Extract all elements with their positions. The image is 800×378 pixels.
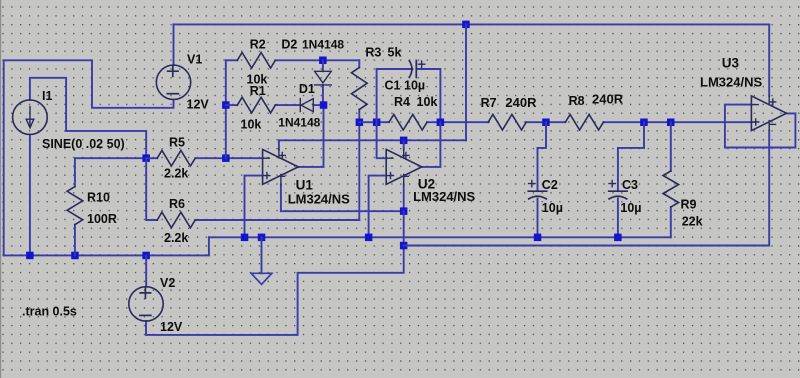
U2 V+ pin stub (403, 149, 405, 158)
svg-text:R5: R5 (169, 136, 185, 150)
svg-text:C2: C2 (542, 178, 558, 192)
voltage source V1 (156, 65, 190, 99)
wire: U1 V- lead / V- row (281, 184, 404, 211)
wire: R10 bottom lead (74, 225, 76, 256)
capacitor C2 (528, 191, 546, 199)
svg-text:R8: R8 (569, 94, 585, 108)
svg-text:R9: R9 (681, 198, 697, 212)
node R5/riser junction (222, 154, 230, 162)
wire: U1 V+ stub (278, 140, 280, 149)
svg-text:12V: 12V (187, 98, 210, 112)
svg-text:R10: R10 (87, 191, 110, 205)
C3 plus mark (609, 180, 615, 186)
node ground stem junction (258, 234, 266, 242)
wire: opamp V+ rail (279, 139, 466, 141)
node D2 top junction (319, 57, 327, 65)
wire: C2 bottom lead (537, 199, 539, 238)
node C3 top junction (640, 119, 648, 127)
svg-text:C1: C1 (385, 79, 401, 93)
svg-text:100R: 100R (87, 212, 117, 226)
wire: U3 V+ riser (768, 24, 770, 96)
wire: V1 negative chain (4, 60, 174, 255)
node D1-D2 junction (320, 101, 328, 109)
node bus-V2 junction (142, 252, 150, 260)
diode D1 (300, 99, 313, 112)
wire: R1R2 riser (225, 60, 227, 158)
C2 plus mark (529, 180, 535, 186)
wire: R6 to summing riser (358, 122, 360, 220)
V2 plus mark (140, 288, 150, 298)
U3 V- pin stub (768, 121, 770, 131)
V2 minus mark (140, 314, 151, 316)
I1 arrow (26, 107, 34, 128)
wire: ground rail (209, 236, 671, 238)
svg-text:C3: C3 (622, 178, 638, 192)
node R1 left junction (222, 101, 230, 109)
voltage source V2 (129, 287, 163, 321)
svg-text:10k: 10k (241, 118, 262, 132)
wire: ground stem (261, 237, 263, 273)
svg-text:R6: R6 (169, 197, 185, 211)
node U1 +in/ground junction (241, 234, 249, 242)
svg-text:1N4148: 1N4148 (278, 116, 320, 130)
svg-text:D2: D2 (281, 38, 297, 52)
svg-text:2.2k: 2.2k (164, 231, 188, 245)
wire: R9 top lead (670, 122, 672, 171)
U1 V- mark (279, 175, 285, 177)
wire: D1 anode lead (313, 104, 323, 106)
wire: C3 top lead (618, 122, 644, 191)
capacitor C1 (409, 61, 416, 78)
svg-text:.tran 0.5s: .tran 0.5s (22, 305, 77, 319)
capacitor C3 (609, 191, 627, 199)
node U2 out junction (437, 119, 445, 127)
U1 +in mark (264, 173, 270, 179)
svg-text:22k: 22k (682, 215, 703, 229)
op-amp U1 (263, 149, 299, 184)
wire: R8 to U3 +in (603, 121, 751, 123)
wire: I1 bottom lead (29, 135, 31, 256)
node U2 V+ junction (400, 137, 408, 145)
U3 +in mark (753, 119, 759, 125)
node U2 V- junction (400, 207, 408, 215)
wire: R1 left lead (226, 104, 238, 106)
svg-text:5k: 5k (388, 46, 402, 60)
U1 V+ pin stub (278, 149, 280, 158)
svg-text:I1: I1 (42, 89, 52, 103)
svg-text:R7: R7 (481, 96, 497, 110)
wire: R1 to D1 cathode (275, 104, 300, 106)
U1 V- pin stub (280, 174, 282, 184)
V1 plus mark (168, 66, 178, 76)
diode D2 (315, 71, 332, 85)
node A junction (142, 154, 150, 162)
wire: R2 right lead (275, 59, 359, 61)
wire: C1 right lead (417, 69, 441, 122)
wire: U2 -in riser (377, 69, 387, 158)
wire: D2 top lead (322, 60, 324, 71)
wire: V1 top riser (173, 24, 175, 65)
svg-text:R2: R2 (250, 38, 266, 52)
node C3 bottom junction (614, 234, 622, 242)
node U2 +in/ground junction (365, 234, 373, 242)
resistor R7 (488, 114, 526, 130)
U2 V- pin stub (403, 174, 405, 184)
op-amp U3 (751, 96, 786, 131)
U2 V+ mark (403, 152, 409, 158)
wire: R5 left lead (146, 157, 157, 159)
node C2 top junction (542, 119, 550, 127)
op-amp U2 (386, 149, 422, 184)
svg-text:10µ: 10µ (404, 79, 425, 93)
svg-text:LM324/NS: LM324/NS (413, 189, 475, 204)
C1 plus mark (418, 61, 424, 67)
wire: node A to R10 top (75, 158, 146, 186)
wire: R4 right lead to R7 (427, 121, 488, 123)
resistor R8 (565, 114, 603, 130)
resistor R10 (67, 187, 83, 225)
wire: D2 cathode to U1 output (298, 85, 323, 167)
svg-text:D1: D1 (299, 82, 315, 96)
wire: R6 riser and left lead (146, 158, 157, 220)
svg-text:U3: U3 (722, 56, 740, 71)
wire: V- rail to U3 (404, 131, 770, 246)
svg-text:240R: 240R (505, 95, 537, 110)
node R3/summing junction (356, 119, 364, 127)
wire: ground bus left (4, 254, 209, 256)
resistor R5 (157, 150, 195, 166)
svg-text:1N4148: 1N4148 (302, 38, 344, 52)
U3 -in mark (753, 104, 759, 106)
svg-text:SINE(0 .02 50): SINE(0 .02 50) (42, 137, 125, 151)
svg-text:U1: U1 (296, 178, 314, 193)
wire: ground bus step (208, 237, 210, 255)
wire: U2 V+ stub (403, 140, 405, 149)
node C1/U2 -in junction (373, 119, 381, 127)
wire: R6 right lead (195, 219, 359, 221)
U1 -in mark (264, 157, 270, 159)
resistor R2 (237, 53, 275, 69)
svg-text:V2: V2 (160, 276, 175, 290)
svg-text:10µ: 10µ (542, 201, 563, 215)
U2 V- mark (403, 175, 409, 177)
wire: summing row left (359, 121, 389, 123)
U3 V+ mark (770, 99, 776, 105)
U1 V+ mark (279, 152, 285, 158)
node bus-I1 junction (26, 252, 33, 260)
wire: U2 +in lead (369, 176, 387, 238)
wire: V2 negative chain (146, 211, 404, 335)
current source I1 (13, 100, 48, 135)
wire: R3 bottom lead (358, 110, 360, 123)
V1 minus mark (167, 93, 178, 95)
U3 V+ pin stub (768, 96, 770, 105)
wire: C2 top lead (538, 122, 547, 191)
svg-text:R3: R3 (365, 46, 381, 60)
U2 -in mark (387, 157, 393, 159)
wire: R3 top lead (358, 60, 360, 67)
wire: V2 top riser (145, 255, 147, 286)
svg-text:LM324/NS: LM324/NS (288, 192, 350, 207)
wire: U1 +in lead (245, 176, 263, 238)
wire: R7-R8 link (526, 121, 565, 123)
wire: V+ top rail (174, 23, 770, 25)
svg-text:240R: 240R (592, 92, 624, 107)
U2 +in mark (388, 173, 394, 179)
resistor R3 (352, 68, 368, 110)
wire: C3 bottom lead (617, 199, 619, 238)
resistor R1 (237, 97, 275, 113)
svg-text:LM324/NS: LM324/NS (700, 75, 762, 90)
wire: U2 V- stub (403, 184, 405, 211)
resistor R9 (663, 171, 679, 207)
resistor R6 (157, 212, 195, 228)
node R9 top junction (667, 119, 675, 127)
ground (251, 273, 272, 284)
svg-text:12V: 12V (160, 320, 183, 334)
node V+ tap junction (462, 21, 470, 29)
wire: R2 left lead (226, 59, 238, 61)
svg-text:V1: V1 (187, 53, 202, 67)
svg-text:2.2k: 2.2k (164, 167, 188, 181)
svg-text:10µ: 10µ (620, 201, 641, 215)
svg-text:10k: 10k (247, 73, 268, 87)
node bus-R10 junction (71, 252, 79, 260)
wire: V+ drop to opamp rail (465, 24, 467, 140)
wire: U2 output riser (422, 122, 441, 167)
wire: U3 feedback loop (725, 105, 796, 148)
wire: I1 top loop (30, 78, 146, 158)
svg-text:R4: R4 (394, 95, 410, 109)
node C2 bottom junction (534, 234, 542, 242)
resistor R4 (389, 114, 427, 130)
wire: R9 bottom lead (670, 207, 672, 237)
wire: C1 left lead (377, 68, 413, 70)
svg-text:10k: 10k (417, 95, 438, 109)
U3 V- mark (770, 123, 776, 125)
wire: R5 right lead to U1 -in (195, 157, 262, 159)
node V- rail junction (400, 242, 408, 250)
